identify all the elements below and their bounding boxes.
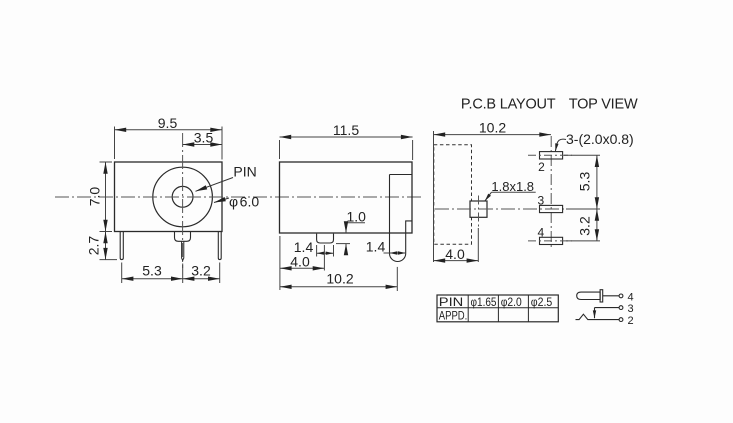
front view: center pin circle [172,186,193,207]
svg-text:10.2: 10.2 [479,120,506,136]
dimension 3.2: line with arrows [183,278,220,280]
pcb layout: vertical centerline through pads [550,136,552,250]
svg-text:7.0: 7.0 [87,187,103,207]
dimension 9.5: line with arrows [115,129,223,131]
dimension 4.0 side: extension line from foot center [323,245,325,271]
svg-text:2.7: 2.7 [86,236,102,256]
phi 6.0 leader arrow [214,198,229,203]
side view: spring clip inner edge [389,175,391,254]
front view: left leg [120,232,123,260]
dimension 4.0 pcb: extension line [477,228,479,262]
pcb layout: square pad 1.8x1.8 [470,201,487,217]
svg-text:9.5: 9.5 [158,115,178,131]
dimension 2.7: extension line [100,259,118,261]
pcb pad 4 [540,237,563,244]
PIN leader arrow [196,178,234,192]
svg-text:PIN: PIN [439,295,464,309]
dimension 9.5: extension lines [115,127,223,160]
svg-text:4.0: 4.0 [445,246,465,262]
plug schematic: pin 3 terminal circle [619,306,623,310]
dimension 7.0: extension lines [100,162,113,232]
table outer frame [437,295,558,322]
dimension 11.5: line with arrows [280,136,413,138]
svg-text:1.8x1.8: 1.8x1.8 [491,179,534,194]
dimension 1.4 clip: lead-in line [384,252,390,254]
svg-text:TOP VIEW: TOP VIEW [569,97,638,113]
svg-text:11.5: 11.5 [333,122,359,138]
svg-text:4.0: 4.0 [290,253,310,269]
dimension 7.0: line with arrows [105,162,107,232]
dimension 1.0: upper arrow [345,223,347,233]
dimension 1.4 foot: line with arrows [317,252,334,254]
pcb layout: left extension line [433,131,435,262]
side view: spring clip top edge [390,174,413,176]
plug schematic: barrel pin 4 [577,292,600,299]
vertical centerline of front view [182,133,184,268]
dimension 1.4 foot: extension lines [317,245,334,257]
table row divider [437,307,558,309]
svg-text:2: 2 [538,160,545,174]
dimension 10.2 side: line with arrows [280,286,397,288]
horizontal centerline through views 1 and 2 [55,196,424,198]
side view: clip notch [406,221,412,254]
front view: barrel circle [153,167,213,227]
plug schematic: pin 2 terminal circle [619,318,623,322]
pcb pad 2 centerline [528,154,572,156]
svg-text:4: 4 [537,225,544,239]
svg-text:φ2.0: φ2.0 [501,295,522,309]
svg-text:3-(2.0x0.8): 3-(2.0x0.8) [566,131,634,147]
plug schematic: pin 4 lead [603,295,620,297]
dimension 1.0: foot bottom extension line [336,243,350,245]
plug schematic: pin 2 lead with spring zigzag [576,314,620,319]
dimension 5.3 pcb: extension lines [564,155,600,241]
dimension 10.2 side: extension line from clip tip [396,267,398,291]
svg-text:3.2: 3.2 [577,216,593,236]
front view: center pin [182,241,184,260]
side view: jack body [280,162,413,233]
dimensions 5.3 and 3.2: extension lines [122,263,220,284]
plug schematic: pin 3 lead [595,307,620,309]
svg-text:4: 4 [628,291,634,303]
pcb pad 4 centerline [528,240,572,242]
dimension 5.3: line with arrows [122,278,183,280]
svg-text:3.5: 3.5 [194,130,214,146]
dimension 5.3 pcb: line with arrows [596,155,598,209]
plug schematic: flange bar [600,290,603,302]
dimension 11.5: extension lines [280,140,413,160]
pcb layout: horizontal centerline [435,208,598,210]
plug schematic: switch contact arrow [594,308,596,319]
svg-text:φ2.5: φ2.5 [531,295,553,309]
callout 3-(2.0x0.8): leader arrow [555,139,566,151]
plug schematic: pin 4 terminal circle [619,294,623,298]
dimension 3.2 pcb: line with arrows [596,209,598,241]
svg-text:5.3: 5.3 [577,172,593,192]
svg-text:1.4: 1.4 [366,239,386,255]
pcb pad 3 [540,205,563,212]
svg-text:APPD.: APPD. [439,309,468,323]
dimension 1.0: lower arrow [345,244,347,252]
svg-text:3: 3 [628,303,634,315]
dimension 3.5: line with arrows [183,144,222,146]
svg-text:3: 3 [537,193,544,207]
svg-text:P.C.B LAYOUT: P.C.B LAYOUT [461,97,556,113]
svg-text:1.0: 1.0 [347,209,367,225]
callout 1.8x1.8: leader arrow [485,192,492,201]
side view: clip rounded tip [390,253,406,261]
side view: plastic foot [317,234,334,243]
dimension 4.0 pcb: line with arrows [434,260,479,262]
pcb pad 2 [540,152,563,159]
svg-text:2: 2 [628,315,634,327]
dimension 1.4 clip: line with arrows [390,252,406,254]
svg-text:φ1.65: φ1.65 [471,295,497,309]
dimension 10.2 pcb: line with arrows [434,134,552,136]
svg-text:10.2: 10.2 [326,270,353,286]
dimension 2.7: line with arrows [105,232,107,260]
svg-text:φ6.0: φ6.0 [229,194,259,210]
side view: left extension line [279,236,281,290]
front view: right leg [218,232,221,260]
dimension 4.0 side: line with arrows [280,267,325,269]
table column dividers [468,295,528,322]
svg-text:PIN: PIN [233,164,256,180]
pcb layout: square pad vertical centerline [478,196,480,229]
svg-text:5.3: 5.3 [142,263,162,279]
front view: plastic boss [175,232,191,242]
svg-text:3.2: 3.2 [191,263,211,279]
front view: jack body [115,162,223,232]
pcb layout: dashed body outline [434,145,472,244]
